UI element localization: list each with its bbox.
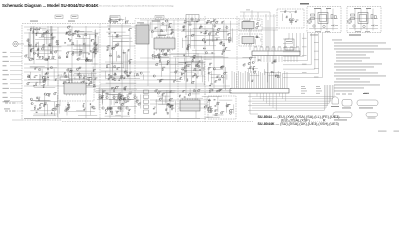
capacitor C66 bbox=[158, 57, 161, 59]
resistor R64 bbox=[169, 26, 171, 29]
bus wire B2 bbox=[283, 33, 293, 43]
module M2 parts bbox=[255, 37, 261, 44]
transistor Q11 bbox=[85, 60, 87, 62]
value label bbox=[117, 33, 119, 36]
diode D40 bbox=[101, 98, 102, 99]
value label bbox=[39, 106, 42, 109]
value label bbox=[249, 61, 251, 64]
value label bbox=[117, 42, 120, 45]
value label bbox=[114, 87, 116, 90]
transistor Q53 bbox=[157, 54, 159, 56]
node IN12 label bbox=[3, 100, 9, 103]
label model variant bbox=[300, 3, 309, 4]
value label bbox=[101, 94, 104, 97]
value label bbox=[34, 105, 36, 108]
module outline muting board internals bbox=[309, 8, 338, 32]
resistor R82 bbox=[223, 44, 225, 47]
connector CN2 lower pins bbox=[257, 93, 286, 110]
resistor R98 bbox=[271, 71, 273, 74]
value label bbox=[169, 22, 172, 25]
transistor Q112 bbox=[226, 26, 228, 28]
note line 2 bbox=[334, 42, 386, 45]
value label bbox=[229, 39, 231, 42]
value label bbox=[68, 106, 70, 109]
value label bbox=[195, 63, 197, 66]
diode D20 bbox=[67, 56, 68, 57]
value label bbox=[83, 102, 85, 105]
wire bbox=[240, 11, 270, 13]
wire bbox=[262, 27, 277, 29]
diode D96 bbox=[286, 17, 287, 18]
diode D64 bbox=[186, 48, 187, 49]
wire bbox=[24, 71, 150, 73]
resistor R67 bbox=[161, 30, 163, 33]
value label bbox=[210, 105, 212, 108]
diode D32 bbox=[78, 74, 79, 75]
value label bbox=[55, 77, 57, 80]
resistor R85 bbox=[183, 26, 186, 28]
wire bbox=[40, 75, 205, 77]
value label bbox=[36, 27, 38, 30]
resistor R59 bbox=[123, 51, 125, 54]
value label bbox=[30, 44, 32, 47]
value label bbox=[162, 66, 165, 69]
value label bbox=[112, 112, 114, 115]
value label bbox=[42, 46, 44, 49]
value label bbox=[134, 94, 137, 97]
transistor Q84 bbox=[114, 21, 116, 23]
diode D52 bbox=[108, 79, 109, 80]
resistor R80 bbox=[184, 21, 186, 24]
wire bbox=[159, 20, 161, 62]
value label bbox=[174, 79, 177, 82]
diode D95 bbox=[215, 110, 216, 111]
diode D28 bbox=[86, 83, 87, 84]
transistor Q26 bbox=[31, 103, 33, 105]
transistor Q74 bbox=[248, 63, 250, 65]
value label bbox=[113, 77, 115, 80]
value label bbox=[158, 53, 160, 56]
capacitor C42 bbox=[178, 96, 181, 98]
resistor R36 bbox=[90, 82, 92, 85]
resistor R37 bbox=[56, 105, 58, 108]
value label bbox=[191, 17, 193, 20]
resistor R105 bbox=[215, 114, 217, 117]
diode D61 bbox=[170, 91, 171, 92]
connector CN1 bbox=[252, 48, 300, 63]
resistor R45 bbox=[120, 107, 122, 110]
package outline TO-92 bbox=[332, 97, 338, 104]
resistor R12 bbox=[32, 31, 35, 33]
diode D7 bbox=[46, 31, 47, 32]
value label bbox=[246, 9, 250, 12]
value label bbox=[56, 49, 59, 52]
value label bbox=[107, 48, 109, 51]
value label bbox=[154, 112, 157, 115]
value label bbox=[127, 74, 130, 77]
value label bbox=[127, 20, 129, 23]
paper background bbox=[0, 0, 400, 138]
diode D38 bbox=[118, 98, 119, 99]
transistor Q2 bbox=[41, 48, 43, 50]
node IN3 label bbox=[3, 60, 9, 63]
transistor Q91 bbox=[113, 96, 115, 98]
diode D84 bbox=[93, 52, 94, 53]
diode D36 bbox=[111, 108, 112, 109]
value label bbox=[66, 79, 73, 82]
value label bbox=[157, 62, 159, 65]
capacitor C11 bbox=[34, 76, 36, 79]
value label bbox=[221, 65, 224, 68]
resistor R90 bbox=[186, 46, 189, 48]
bus wire B9 bbox=[283, 33, 319, 73]
value label bbox=[120, 94, 123, 97]
wire bbox=[140, 19, 205, 21]
transistor Q90 bbox=[106, 96, 108, 98]
net label B8 bbox=[314, 67, 319, 70]
footer note bbox=[378, 131, 387, 132]
diode D33 bbox=[43, 105, 44, 106]
note line 10 bbox=[334, 66, 374, 69]
capacitor C2 bbox=[48, 44, 51, 46]
value label bbox=[250, 66, 252, 69]
value label bbox=[44, 77, 46, 80]
transistor Q51 bbox=[175, 71, 177, 73]
value label bbox=[159, 79, 161, 82]
transistor Q85 bbox=[161, 50, 163, 52]
diode D43 bbox=[129, 110, 130, 111]
headphone amp cluster bbox=[66, 106, 97, 115]
diode D51 bbox=[107, 50, 108, 51]
value label bbox=[129, 108, 131, 111]
capacitor C39 bbox=[153, 113, 156, 115]
power amp input cluster bbox=[210, 24, 230, 42]
value label bbox=[72, 41, 74, 44]
value label bbox=[194, 54, 196, 57]
value label bbox=[193, 88, 195, 91]
resistor R60 bbox=[116, 35, 118, 38]
value label bbox=[286, 15, 288, 18]
value label bbox=[40, 102, 43, 105]
value label bbox=[77, 33, 79, 36]
value label bbox=[257, 21, 259, 24]
node IN7 label bbox=[3, 78, 7, 81]
transistor Q66 bbox=[217, 29, 219, 31]
transistor Q43 bbox=[114, 66, 116, 68]
resistor R94 bbox=[219, 78, 221, 81]
relay drive cluster bbox=[202, 96, 222, 117]
transistor Q36 bbox=[123, 98, 125, 100]
transistor Q16 bbox=[42, 77, 44, 79]
wire bbox=[173, 20, 175, 38]
transistor Q68 bbox=[205, 52, 207, 54]
value label bbox=[114, 72, 116, 75]
wire bbox=[140, 57, 250, 59]
value label bbox=[78, 57, 81, 60]
capacitor C70 bbox=[256, 23, 258, 26]
module outline muting board K internals bbox=[349, 8, 378, 32]
diode D78 bbox=[208, 73, 209, 74]
capacitor C31 bbox=[116, 68, 118, 71]
transistor Q15 bbox=[43, 81, 45, 83]
value label bbox=[167, 111, 169, 114]
value label bbox=[228, 36, 230, 39]
value label bbox=[217, 101, 220, 104]
connector CN2 bbox=[230, 71, 289, 93]
wire bbox=[169, 50, 171, 118]
diode D63 bbox=[204, 42, 205, 43]
diode D46 bbox=[109, 33, 110, 34]
resistor R29 bbox=[27, 75, 29, 78]
resistor R114 bbox=[290, 21, 292, 24]
transistor Q77 bbox=[243, 64, 245, 66]
diode D88 bbox=[167, 51, 168, 52]
diode D91 bbox=[198, 65, 199, 66]
transistor Q96 bbox=[110, 107, 112, 109]
value label bbox=[95, 33, 98, 36]
value label bbox=[42, 33, 44, 36]
value label bbox=[77, 29, 79, 32]
capacitor C79 bbox=[83, 108, 85, 111]
value label bbox=[186, 63, 189, 66]
bus wire B8 bbox=[283, 33, 315, 69]
value label bbox=[137, 99, 139, 102]
capacitor C61 bbox=[88, 53, 91, 55]
section header box at 55 bbox=[55, 15, 63, 19]
value label bbox=[221, 41, 223, 44]
value label bbox=[65, 108, 68, 111]
junction box JB1 bbox=[285, 39, 294, 50]
diode D29 bbox=[95, 78, 96, 79]
value label bbox=[215, 109, 218, 112]
footer page number bbox=[394, 131, 400, 132]
value label bbox=[170, 97, 173, 100]
value label bbox=[111, 46, 114, 49]
capacitor C20 bbox=[36, 111, 38, 114]
value label bbox=[122, 102, 124, 105]
value label bbox=[27, 74, 29, 77]
wire bbox=[269, 12, 271, 50]
value label bbox=[274, 59, 276, 62]
net name column at x=316 bbox=[316, 86, 322, 94]
value label bbox=[277, 74, 279, 77]
wire bbox=[10, 83, 22, 85]
value label bbox=[194, 67, 196, 70]
net label B1 bbox=[302, 37, 307, 40]
transistor Q107 bbox=[140, 72, 142, 74]
diode D68 bbox=[185, 36, 186, 37]
value label bbox=[47, 92, 50, 95]
node IN11 label bbox=[3, 96, 8, 99]
op-amp U4 bbox=[242, 22, 254, 31]
value label bbox=[50, 50, 52, 53]
diode D3 bbox=[43, 45, 44, 46]
capacitor C59 bbox=[95, 52, 97, 55]
section header box at 71 bbox=[71, 15, 78, 19]
value label bbox=[79, 66, 81, 69]
value label bbox=[169, 104, 172, 107]
note line 9 bbox=[334, 63, 382, 66]
value label bbox=[215, 112, 218, 115]
wire bbox=[223, 20, 225, 88]
diode D76 bbox=[217, 77, 218, 78]
capacitor C28 bbox=[108, 28, 111, 30]
transistor Q114 bbox=[214, 25, 216, 27]
resistor R38 bbox=[38, 98, 41, 100]
value label bbox=[252, 79, 254, 82]
capacitor C17 bbox=[48, 95, 51, 97]
transistor Q92 bbox=[120, 96, 122, 98]
wire bbox=[10, 101, 22, 103]
wire bbox=[213, 18, 215, 88]
value label bbox=[123, 96, 126, 99]
resistor R91 bbox=[203, 47, 205, 50]
value label bbox=[125, 85, 127, 88]
value label bbox=[193, 80, 195, 83]
capacitor C56 bbox=[274, 75, 277, 77]
note line 15 bbox=[334, 81, 370, 84]
resistor R34 bbox=[88, 79, 91, 81]
node IN6 label bbox=[3, 73, 9, 76]
value label bbox=[162, 92, 165, 95]
wire bbox=[95, 91, 230, 93]
capacitor C35 bbox=[166, 63, 169, 65]
transistor Q58 bbox=[169, 99, 171, 101]
wire bbox=[273, 14, 275, 50]
value label bbox=[73, 32, 76, 35]
value label bbox=[225, 71, 228, 74]
value label bbox=[117, 110, 119, 113]
resistor R76 bbox=[169, 105, 171, 108]
value label bbox=[103, 89, 106, 92]
resistor R103 bbox=[95, 48, 97, 51]
resistor R65 bbox=[168, 25, 171, 27]
capacitor C51 bbox=[227, 34, 230, 36]
value label bbox=[43, 103, 46, 106]
value label bbox=[52, 55, 55, 58]
resistor R52 bbox=[129, 92, 131, 95]
value label bbox=[86, 57, 88, 60]
value label bbox=[222, 51, 224, 54]
package outline TO-220 bbox=[342, 100, 352, 107]
capacitor C57 bbox=[272, 62, 274, 65]
transistor Q1 bbox=[33, 52, 35, 54]
diode D85 bbox=[210, 109, 211, 110]
package outline DIP bbox=[333, 112, 352, 118]
value label bbox=[28, 41, 30, 44]
transistor Q100 bbox=[256, 36, 258, 38]
transistor Q40 bbox=[121, 103, 123, 105]
value label bbox=[207, 19, 210, 22]
note line 7 bbox=[336, 57, 370, 60]
resistor R9 bbox=[35, 33, 38, 35]
section header box at 110 bbox=[110, 16, 120, 20]
value label bbox=[206, 21, 208, 24]
selector cluster bbox=[106, 32, 133, 79]
transistor Q98 bbox=[126, 107, 128, 109]
resistor R21 bbox=[88, 60, 90, 63]
resistor R54 bbox=[118, 56, 120, 59]
transistor Q62 bbox=[188, 94, 190, 96]
bus wire L1 bbox=[248, 85, 334, 97]
resistor R11 bbox=[57, 43, 59, 46]
value label bbox=[110, 18, 113, 21]
value label bbox=[27, 38, 30, 41]
bus wire B6 bbox=[283, 33, 308, 61]
resistor R86 bbox=[223, 50, 225, 53]
capacitor C78 bbox=[89, 103, 92, 105]
capacitor C7 bbox=[90, 40, 93, 42]
value label bbox=[35, 66, 38, 69]
value label bbox=[43, 78, 45, 81]
protection cluster B bbox=[181, 88, 206, 98]
value label bbox=[125, 70, 128, 73]
value label bbox=[118, 96, 121, 99]
value label bbox=[88, 58, 91, 61]
switch cluster bbox=[150, 22, 172, 35]
diode D59 bbox=[162, 94, 163, 95]
diode D50 bbox=[124, 78, 125, 79]
capacitor C47 bbox=[221, 53, 224, 55]
section header box at 155 bbox=[155, 16, 164, 20]
transistor Q19 bbox=[27, 83, 29, 85]
wire bbox=[24, 85, 230, 87]
diode D83 bbox=[30, 45, 31, 46]
value label bbox=[109, 53, 111, 56]
diode D26 bbox=[45, 74, 46, 75]
value label bbox=[89, 82, 91, 85]
value label bbox=[223, 42, 225, 45]
resistor R40 bbox=[33, 107, 36, 109]
wire bbox=[24, 32, 100, 34]
node jack of module outline muting board K bbox=[348, 20, 352, 24]
diode D57 bbox=[199, 61, 200, 62]
node IN10 label bbox=[3, 91, 7, 94]
value label bbox=[184, 20, 186, 23]
value label bbox=[170, 89, 172, 92]
transistor Q18 bbox=[50, 67, 52, 69]
module outline M2 bbox=[239, 34, 262, 46]
value label bbox=[185, 61, 187, 64]
value label bbox=[96, 43, 98, 46]
value label bbox=[107, 63, 110, 66]
resistor R57 bbox=[114, 73, 116, 76]
note line 1 bbox=[332, 39, 342, 42]
transistor Q86 bbox=[152, 54, 154, 56]
diode D21 bbox=[73, 52, 74, 53]
net label B3 bbox=[302, 46, 307, 49]
value label bbox=[119, 77, 122, 80]
capacitor C81 bbox=[215, 33, 217, 36]
connector CN1 pin labels bbox=[254, 46, 299, 49]
value label bbox=[255, 70, 257, 73]
mid band parts bbox=[101, 71, 144, 83]
value label bbox=[43, 83, 45, 86]
value label bbox=[47, 57, 49, 60]
wire bbox=[15, 110, 24, 112]
value label bbox=[32, 57, 34, 60]
value label bbox=[227, 103, 230, 106]
resistor R44 bbox=[117, 95, 120, 97]
value label bbox=[70, 38, 72, 41]
resistor R92 bbox=[204, 32, 206, 35]
net label B4 bbox=[314, 50, 319, 53]
capacitor C68 bbox=[184, 62, 187, 64]
value label bbox=[222, 110, 225, 113]
resistor R100 bbox=[27, 39, 29, 42]
value label bbox=[110, 106, 113, 109]
value label bbox=[197, 75, 199, 78]
